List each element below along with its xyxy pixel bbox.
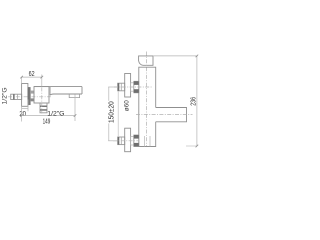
svg-text:236: 236 bbox=[190, 96, 198, 105]
vertical centerline through body/stub bbox=[41, 87, 43, 113]
dimension 150±20: extension lines bbox=[108, 86, 118, 88]
dimension 236: dimension line bbox=[196, 56, 198, 146]
dimension 236: top extension line bbox=[153, 55, 197, 57]
lower inlet: escutcheon ring bbox=[131, 137, 134, 145]
mixer body bbox=[34, 87, 49, 103]
handle lever bbox=[139, 56, 153, 65]
spout underside with curve bbox=[50, 94, 82, 95]
svg-text:62: 62 bbox=[29, 70, 35, 78]
spout arm centerline bbox=[136, 114, 193, 116]
lower inlet centerline bbox=[113, 140, 139, 142]
aerator bbox=[69, 94, 79, 98]
lower inlet: threaded tail bbox=[118, 137, 125, 145]
dimension 62: extension lines bbox=[21, 77, 23, 83]
dimension 20: extension and line bbox=[27, 100, 29, 112]
dimension 149: dimension line bbox=[22, 115, 75, 117]
dimension 150±20: text bbox=[107, 101, 116, 124]
dimension 149: right extension line from aerator bbox=[74, 94, 76, 121]
wall flange bbox=[22, 84, 28, 107]
svg-text:ø60: ø60 bbox=[123, 100, 130, 111]
upper inlet: escutcheon ring bbox=[131, 83, 134, 91]
dimension 149: left extension line (wall plane) bbox=[21, 106, 23, 121]
svg-text:1/2"G: 1/2"G bbox=[47, 111, 64, 118]
flange front ring (dark) bbox=[28, 87, 30, 104]
body column bbox=[139, 67, 156, 146]
connection line between tails bbox=[117, 91, 119, 137]
spout arm (side view) bbox=[156, 108, 187, 122]
spout top edge bbox=[34, 86, 82, 88]
svg-text:149: 149 bbox=[43, 118, 51, 126]
upper inlet centerline bbox=[114, 86, 152, 88]
dimension 150±20: dimension line bbox=[108, 87, 110, 141]
spout joint line bbox=[49, 87, 51, 96]
lower inlet: union nut bbox=[134, 135, 139, 147]
hand-shower outlet stub under body bbox=[40, 103, 47, 113]
horizontal centerline of inlet bbox=[8, 96, 51, 98]
threaded tail stub bbox=[11, 94, 22, 99]
upper inlet: threaded tail bbox=[118, 83, 125, 91]
spout tip face bbox=[81, 87, 83, 94]
upper inlet: union nut bbox=[134, 81, 139, 93]
dimension 236: bottom extension line bbox=[186, 145, 197, 147]
bottom detail lines bbox=[144, 136, 146, 147]
svg-text:1/2"G: 1/2"G bbox=[2, 87, 9, 104]
lower inlet: flange bbox=[125, 128, 131, 152]
vertical centerline of column bbox=[146, 52, 148, 147]
upper inlet: flange bbox=[125, 74, 131, 98]
connector neck bbox=[30, 91, 34, 101]
dimension 62: dimension line bbox=[22, 76, 42, 78]
svg-text:150±20: 150±20 bbox=[108, 101, 115, 123]
